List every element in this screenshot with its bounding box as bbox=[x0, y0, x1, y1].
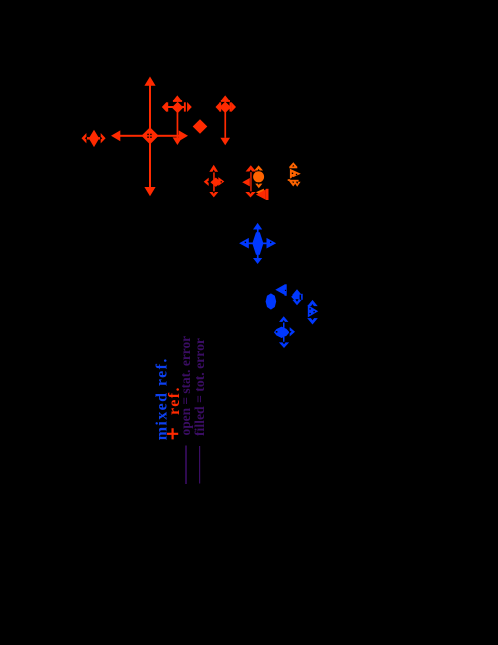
marker M6 orange bottom left arrowhead bbox=[256, 189, 264, 196]
marker M4 right arrowhead bbox=[231, 102, 236, 112]
marker B1 up stem bbox=[257, 229, 259, 234]
marker B1 left stem bbox=[248, 243, 254, 245]
marker B4 down open arrowhead bbox=[292, 300, 301, 305]
marker B1 left arrow hole bbox=[245, 242, 246, 243]
marker B6 up open arrowhead bbox=[279, 316, 288, 322]
marker M7 up cap bar bbox=[289, 167, 297, 169]
marker M2 down arrowhead bbox=[173, 137, 183, 145]
marker B4 body holes bbox=[300, 295, 302, 300]
marker M6 red bottom left arrowhead bbox=[256, 189, 266, 199]
marker M2 right arrowhead bbox=[187, 102, 192, 112]
svg-text:open = stat. error: open = stat. error bbox=[178, 336, 193, 436]
svg-text:filled = tot. error: filled = tot. error bbox=[192, 338, 207, 436]
marker B1 left arrowhead bbox=[239, 238, 249, 249]
legend line sample 2 bbox=[199, 446, 200, 484]
marker M2 up cap bar bbox=[173, 100, 182, 102]
marker M2 right stem bbox=[182, 106, 185, 108]
marker M0 right open arrowhead bbox=[101, 133, 106, 143]
marker M4 down arrowhead bbox=[220, 138, 230, 146]
marker B1 tall diamond bbox=[252, 232, 263, 255]
marker B6 down stem bbox=[283, 337, 285, 343]
marker B5 up open arrowhead bbox=[307, 300, 317, 306]
marker M4 down stem bbox=[224, 112, 226, 138]
marker M7 triangle holes bbox=[292, 173, 293, 174]
marker B3 left arrowhead bbox=[275, 285, 284, 295]
marker B6 right open arrowhead bbox=[290, 327, 295, 336]
marker M7 right triangle bbox=[290, 169, 301, 179]
marker M4 left arrowhead bbox=[216, 102, 221, 112]
marker M0 right stem bbox=[98, 137, 104, 139]
legend line sample 1 bbox=[185, 446, 187, 485]
marker M6 orange down open arrowhead bbox=[255, 184, 262, 189]
marker B5 triangle holes bbox=[309, 308, 310, 309]
marker M7 down cap bar bbox=[290, 180, 299, 182]
marker M4 up arrowhead bbox=[221, 95, 229, 100]
marker B4 body bbox=[291, 291, 302, 303]
marker M7 down open arrowhead bbox=[289, 181, 298, 187]
marker M5 up open arrowhead bbox=[209, 165, 218, 172]
marker B3 hole bbox=[285, 290, 286, 291]
marker M1 vertical error bar bbox=[149, 85, 151, 188]
marker MD diamond bbox=[193, 119, 208, 134]
marker M5 vertical line bbox=[213, 170, 215, 193]
marker M2 down stem bbox=[177, 112, 179, 138]
marker M2 left stem bbox=[168, 106, 173, 108]
marker M4 left cap bar bbox=[219, 102, 221, 111]
marker B6 body hole bbox=[276, 331, 278, 333]
legend plus marker bbox=[167, 428, 178, 439]
marker M4 up cap bar bbox=[221, 100, 230, 102]
marker B1 right stem bbox=[263, 243, 270, 245]
marker B6 body bbox=[274, 327, 290, 338]
marker M6 orange up open arrowhead bbox=[254, 165, 263, 170]
marker B1 up arrowhead bbox=[253, 223, 262, 230]
marker M0 left open arrowhead bbox=[82, 133, 87, 143]
marker M2 left cap bar bbox=[166, 102, 168, 111]
marker B4 right bar bbox=[301, 294, 303, 300]
marker M1 down arrowhead bbox=[144, 187, 155, 196]
marker B1 right arrow hole bbox=[270, 242, 271, 243]
marker B3 cap bar bbox=[285, 284, 287, 296]
marker B6 up stem bbox=[283, 321, 285, 328]
marker B1 right arrowhead bbox=[267, 238, 277, 249]
marker M1 left arrowhead bbox=[111, 130, 120, 141]
marker M1 diamond bbox=[141, 127, 158, 144]
marker B4 up open arrowhead bbox=[292, 289, 302, 295]
marker M1 horizontal error bar bbox=[118, 135, 181, 137]
marker B5 right triangle bbox=[308, 305, 318, 317]
marker M7 up open arrowhead bbox=[289, 162, 297, 166]
marker M4 right cap bar bbox=[230, 102, 232, 111]
marker M5 right arrowhead bbox=[218, 177, 224, 186]
marker M5 left open arrowhead bbox=[204, 178, 209, 186]
marker B1 down arrowhead bbox=[253, 258, 262, 264]
marker M5 hole bbox=[221, 181, 222, 182]
marker M6 red left arrowhead bbox=[242, 178, 250, 186]
marker M6 red up open arrowhead bbox=[246, 165, 256, 171]
marker M5 down open arrowhead bbox=[209, 192, 218, 197]
marker B1 down stem bbox=[257, 253, 259, 259]
marker M6 red cap bar bbox=[266, 189, 269, 200]
marker M6 red down open arrowhead bbox=[245, 192, 255, 198]
marker M0 left stem bbox=[85, 137, 90, 139]
marker M2 up arrowhead bbox=[173, 95, 181, 100]
marker M2 left arrowhead bbox=[162, 102, 167, 112]
marker B6 down open arrowhead bbox=[279, 342, 289, 348]
marker M1 center holes bbox=[147, 134, 149, 135]
marker B5 down open arrowhead bbox=[307, 318, 318, 324]
marker M1 right arrowhead bbox=[179, 130, 188, 141]
marker M1 up arrowhead bbox=[144, 77, 155, 86]
marker M6 red vertical line bbox=[250, 170, 251, 193]
marker M2 right cap bar bbox=[184, 102, 186, 111]
marker M7 left stub bbox=[288, 179, 291, 181]
marker B2 diamond bbox=[266, 293, 277, 309]
marker M2 diamond bbox=[172, 102, 184, 114]
marker M6 orange circle bbox=[253, 171, 264, 182]
marker M0 diamond bbox=[89, 130, 99, 147]
marker M5 diamond bbox=[210, 178, 221, 187]
marker M4 diamond bbox=[219, 102, 231, 114]
